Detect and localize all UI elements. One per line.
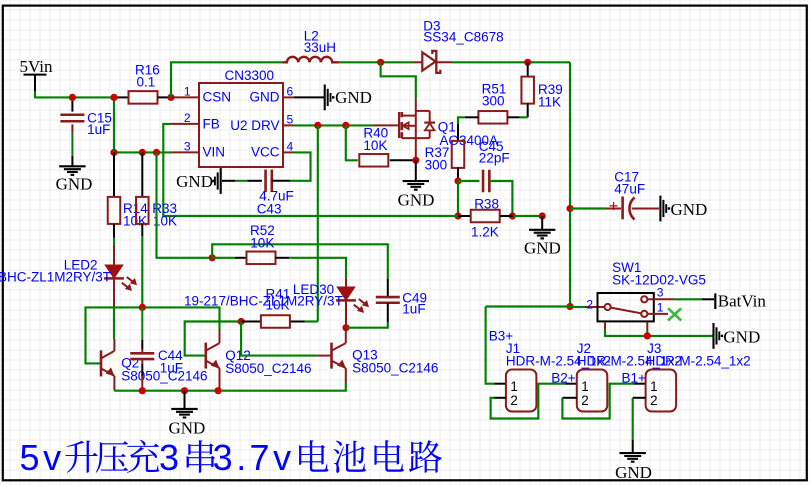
- wire R16 to pin1 node: [158, 96, 172, 98]
- transistor Q2 S8050: [100, 350, 103, 376]
- pin 3: [171, 151, 199, 153]
- pin 2: [171, 123, 199, 125]
- ground under C15: [59, 165, 85, 167]
- svg-text:6: 6: [287, 85, 294, 99]
- junction C44 top: [139, 304, 146, 311]
- junction drain tap: [377, 59, 384, 66]
- wire LED2 to Q2 collector: [113, 307, 115, 339]
- no-ERC marker: [668, 308, 681, 320]
- pin 1: [171, 96, 199, 98]
- wire B3+ net: [486, 305, 570, 307]
- wire rail riser: [113, 97, 115, 152]
- wire to SW1 pin2: [570, 306, 585, 308]
- capacitor C43: [264, 170, 267, 193]
- svg-text:VIN: VIN: [203, 144, 226, 159]
- resistor R38: [458, 215, 470, 217]
- svg-text:GND: GND: [250, 90, 280, 105]
- junction C15: [69, 94, 76, 101]
- wire Q13 base link: [241, 322, 318, 356]
- svg-text:+: +: [609, 197, 619, 215]
- power flag GND at C17: [659, 196, 661, 222]
- junction R37 bottom: [454, 177, 461, 184]
- svg-text:GND: GND: [398, 191, 435, 210]
- svg-text:v: v: [43, 437, 61, 478]
- svg-text:1: 1: [184, 85, 191, 99]
- wire VIN to R52: [157, 152, 213, 257]
- svg-text:10K: 10K: [250, 235, 274, 250]
- svg-text:11K: 11K: [538, 94, 561, 109]
- svg-text:7: 7: [250, 437, 270, 478]
- wire to C49 top: [212, 244, 388, 279]
- power flag GND at C43: [220, 168, 222, 194]
- pin 4: [283, 151, 294, 153]
- LED LED2: [113, 224, 115, 237]
- junction R39 top: [524, 59, 531, 66]
- pin 6: [283, 96, 294, 98]
- pin 3 to BatVin: [648, 298, 675, 300]
- pin 1 no connect: [648, 313, 669, 315]
- junction node pin1: [167, 94, 174, 101]
- svg-text:DRV: DRV: [251, 118, 279, 133]
- svg-text:1.2K: 1.2K: [471, 225, 499, 240]
- wire R33 down: [141, 224, 143, 237]
- svg-text:HDR-M-2.54_1x2: HDR-M-2.54_1x2: [646, 354, 751, 369]
- svg-text:GND: GND: [524, 239, 561, 258]
- wire riser to top: [171, 62, 282, 97]
- wire R38 to gnd tap: [513, 215, 542, 217]
- svg-text:S8050_C2146: S8050_C2146: [225, 361, 311, 376]
- svg-text:B1+: B1+: [622, 371, 647, 386]
- capacitor C44: [141, 307, 143, 340]
- svg-text:GND: GND: [723, 328, 760, 347]
- diode D3: [422, 52, 435, 70]
- pin 5: [283, 124, 294, 126]
- wire drain connection: [381, 62, 416, 98]
- svg-text:U2: U2: [230, 118, 247, 133]
- svg-text:2: 2: [581, 393, 588, 408]
- wire J3 pin2 to ground: [633, 397, 646, 399]
- wire VIN row: [114, 151, 171, 153]
- wire 5Vin to rail: [35, 91, 114, 97]
- ground at rail: [184, 391, 186, 409]
- svg-text:2: 2: [586, 298, 593, 312]
- body diode of Q1: [429, 111, 431, 123]
- svg-text:22pF: 22pF: [479, 151, 510, 166]
- svg-text:1: 1: [650, 379, 657, 394]
- svg-text:v: v: [273, 437, 291, 478]
- svg-text:1: 1: [581, 379, 588, 394]
- wire J2 pin2 to J3 pin1: [562, 397, 576, 399]
- svg-text:3: 3: [213, 437, 233, 478]
- svg-text:1uF: 1uF: [87, 122, 110, 137]
- svg-text:R38: R38: [474, 197, 499, 212]
- connector J1: [506, 370, 537, 412]
- svg-text:5Vin: 5Vin: [20, 57, 53, 76]
- svg-text:SS34_C8678: SS34_C8678: [423, 30, 503, 45]
- svg-text:2: 2: [510, 393, 517, 408]
- wire L2 to D3: [339, 61, 414, 63]
- svg-text:10K: 10K: [363, 138, 387, 153]
- connector J3: [646, 370, 677, 412]
- wire DRV row: [294, 124, 375, 126]
- svg-text:B2+: B2+: [551, 371, 576, 386]
- junction source node: [412, 157, 419, 164]
- junction Q13 collector: [342, 324, 349, 331]
- transistor Q1 AO3400A: [374, 124, 399, 126]
- junction R52 left: [209, 254, 216, 261]
- ground under J3: [620, 452, 646, 454]
- resistor R41: [241, 321, 260, 323]
- transistor Q12 S8050: [205, 343, 208, 369]
- svg-text:3: 3: [159, 437, 179, 478]
- op-amp U2 CN3300: [199, 83, 283, 167]
- transistor Q13 S8050: [330, 343, 333, 369]
- svg-text:19-217/BHC-ZL1M2RY/3T: 19-217/BHC-ZL1M2RY/3T: [184, 294, 343, 309]
- resistor R51: [478, 111, 507, 124]
- junction R38 right: [509, 212, 516, 219]
- inductor L2: [282, 57, 339, 62]
- capacitor C49: [387, 279, 389, 297]
- LED LED30: [336, 287, 356, 302]
- svg-text:GND: GND: [615, 463, 652, 482]
- wire right column down: [569, 62, 571, 306]
- svg-text:C43: C43: [257, 202, 282, 217]
- svg-text:FB: FB: [203, 116, 220, 131]
- SW1 bottom pins to GND: [604, 322, 606, 329]
- svg-text:CN3300: CN3300: [225, 68, 275, 83]
- svg-text:BHC-ZL1M2RY/3T: BHC-ZL1M2RY/3T: [0, 270, 111, 285]
- svg-text:VCC: VCC: [251, 144, 280, 159]
- junction SW1 feed: [566, 303, 573, 310]
- wire DRV column: [317, 125, 319, 321]
- svg-text:GND: GND: [56, 175, 93, 194]
- resistor R14: [113, 152, 115, 196]
- resistor R37: [457, 124, 459, 141]
- resistor R40: [359, 154, 388, 167]
- svg-text:5: 5: [20, 437, 40, 478]
- svg-text:1uF: 1uF: [402, 302, 425, 317]
- svg-text:GND: GND: [176, 172, 213, 191]
- svg-text:10K: 10K: [123, 213, 147, 228]
- junction C17 tap: [566, 205, 573, 212]
- svg-text:CSN: CSN: [203, 90, 232, 105]
- svg-text:1: 1: [657, 301, 664, 315]
- wire Q12 base link: [185, 322, 241, 356]
- svg-text:BatVin: BatVin: [718, 292, 767, 311]
- junction R38 left: [454, 212, 461, 219]
- resistor R16: [129, 91, 158, 104]
- wire VCC loop: [290, 152, 311, 180]
- svg-text:1uF: 1uF: [160, 360, 183, 375]
- wire D3 to right column: [436, 61, 452, 63]
- svg-text:5: 5: [287, 113, 294, 127]
- wire R37 to R38 node: [457, 181, 459, 216]
- svg-text:0.1: 0.1: [137, 75, 156, 90]
- wire to C17: [570, 207, 606, 209]
- power flag GND pin6: [324, 85, 326, 111]
- svg-text:3: 3: [657, 286, 664, 300]
- svg-text:.: .: [236, 437, 246, 478]
- power flag 5Vin: [24, 74, 47, 76]
- svg-text:2: 2: [184, 111, 191, 125]
- power flag BatVin: [714, 293, 716, 309]
- wire FB to divider: [163, 124, 457, 216]
- svg-text:GND: GND: [169, 419, 206, 438]
- connector J2: [577, 370, 608, 412]
- wire emitter rail: [114, 383, 345, 391]
- wire rail to R16: [114, 96, 129, 98]
- svg-text:GND: GND: [671, 200, 708, 219]
- wire Q1 source to ground: [415, 160, 417, 181]
- svg-text:300: 300: [482, 94, 505, 109]
- svg-text:4: 4: [287, 140, 294, 154]
- resistor R39: [527, 62, 529, 77]
- svg-text:1: 1: [510, 379, 517, 394]
- ground under Q1: [403, 180, 429, 182]
- svg-text:300: 300: [425, 157, 448, 172]
- power flag GND at SW1: [712, 323, 714, 349]
- junction R41 left: [238, 318, 245, 325]
- resistor R33: [141, 152, 143, 196]
- switch SW1 SK-12D02-VG5: [598, 293, 654, 321]
- svg-text:2: 2: [650, 393, 657, 408]
- wire to LED30: [318, 258, 346, 278]
- capacitor C15: [71, 97, 73, 111]
- capacitor C45: [458, 180, 479, 182]
- wire base net A: [86, 307, 220, 363]
- wire J1 pin2 to J2 pin1: [495, 397, 506, 399]
- ground at R38: [529, 229, 555, 231]
- svg-text:3: 3: [184, 140, 191, 154]
- svg-text:33uH: 33uH: [304, 40, 336, 55]
- svg-text:GND: GND: [335, 88, 372, 107]
- resistor R52: [212, 257, 235, 259]
- svg-text:S8050_C2146: S8050_C2146: [352, 361, 438, 376]
- svg-text:47uF: 47uF: [614, 182, 645, 197]
- wire gate pulldown: [346, 125, 358, 160]
